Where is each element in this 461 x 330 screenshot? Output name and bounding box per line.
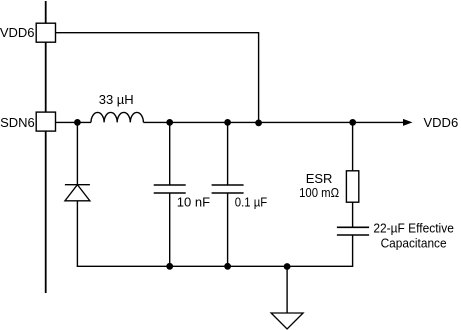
svg-text:Capacitance: Capacitance xyxy=(381,235,447,250)
svg-text:0.1 µF: 0.1 µF xyxy=(235,194,267,209)
svg-text:10 nF: 10 nF xyxy=(177,194,210,209)
svg-text:SDN6: SDN6 xyxy=(0,115,35,130)
svg-text:22-µF Effective: 22-µF Effective xyxy=(373,220,454,235)
svg-text:100 mΩ: 100 mΩ xyxy=(299,185,339,200)
svg-text:VDD6: VDD6 xyxy=(424,115,459,130)
svg-text:33 µH: 33 µH xyxy=(99,92,134,107)
svg-text:ESR: ESR xyxy=(306,171,333,186)
svg-text:VDD6: VDD6 xyxy=(0,25,35,40)
